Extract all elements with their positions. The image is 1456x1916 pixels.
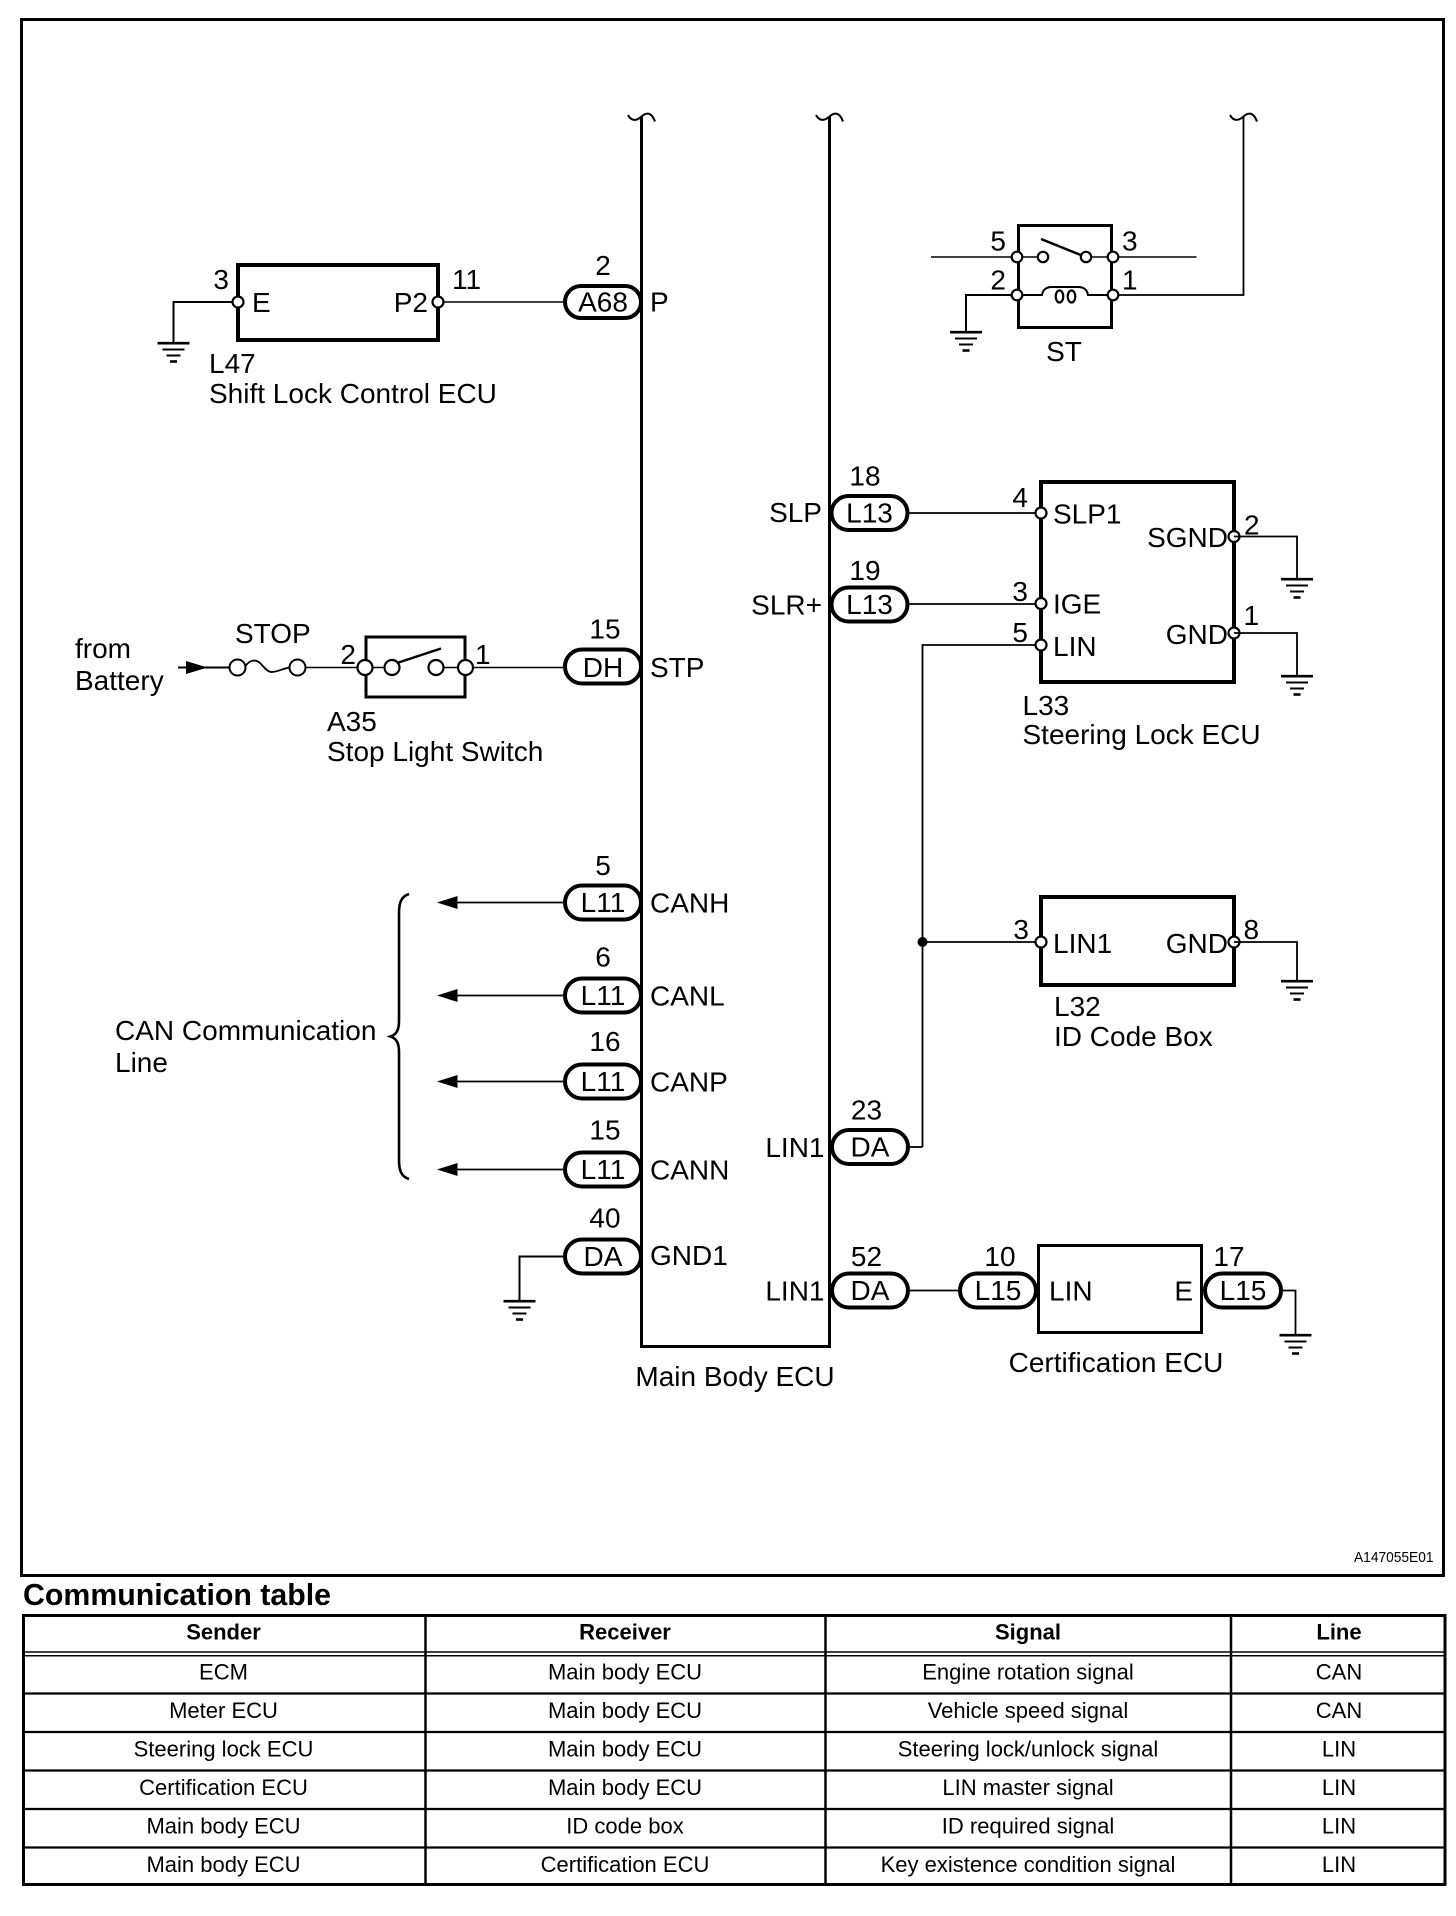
svg-text:LIN1: LIN1 bbox=[765, 1276, 824, 1307]
wire: LIN to LIN bus bbox=[923, 645, 1036, 1147]
wire: L15 17 to ground bbox=[1283, 1291, 1296, 1336]
connector L11 (CANN) bbox=[565, 1153, 641, 1187]
wire: L47 pin E to ground bbox=[174, 302, 234, 343]
wire: fuse to A35 pin 2 bbox=[306, 667, 365, 669]
svg-text:15: 15 bbox=[589, 1115, 620, 1146]
svg-text:Steering Lock ECU: Steering Lock ECU bbox=[1023, 719, 1261, 750]
wire: DA 52 to L15 bbox=[910, 1290, 960, 1292]
pin 3 circle (LIN1) bbox=[1036, 937, 1047, 948]
svg-text:Signal: Signal bbox=[995, 1620, 1061, 1645]
svg-text:Sender: Sender bbox=[186, 1620, 261, 1645]
svg-text:CANN: CANN bbox=[650, 1155, 729, 1186]
svg-text:11: 11 bbox=[452, 264, 481, 295]
svg-text:ECM: ECM bbox=[199, 1660, 248, 1685]
svg-text:ID required signal: ID required signal bbox=[942, 1814, 1114, 1839]
pin 1 circle (GND) bbox=[1229, 628, 1240, 639]
svg-text:from: from bbox=[75, 633, 131, 664]
pin 11 circle (P2) bbox=[433, 297, 444, 308]
svg-text:2: 2 bbox=[340, 639, 356, 670]
table outer border bbox=[24, 1616, 1446, 1885]
svg-text:1: 1 bbox=[1244, 600, 1260, 631]
svg-text:CAN: CAN bbox=[1316, 1698, 1362, 1723]
table header double rule bbox=[25, 1652, 1444, 1656]
pin 8 circle (GND) bbox=[1229, 937, 1240, 948]
svg-text:DH: DH bbox=[583, 652, 623, 683]
svg-text:15: 15 bbox=[589, 614, 620, 645]
A35 contact circles bbox=[385, 660, 400, 675]
svg-text:5: 5 bbox=[990, 226, 1006, 257]
ground (SGND) bbox=[1281, 579, 1313, 597]
svg-text:Battery: Battery bbox=[75, 665, 164, 696]
CAN brace bbox=[391, 894, 410, 1179]
svg-text:Receiver: Receiver bbox=[579, 1620, 671, 1645]
wire break at top of ST wire bbox=[1230, 114, 1257, 122]
connector DH bbox=[565, 650, 641, 684]
wire: DA to ground bbox=[520, 1257, 566, 1302]
svg-text:GND: GND bbox=[1166, 928, 1228, 959]
svg-text:LIN: LIN bbox=[1322, 1814, 1356, 1839]
relay ST box bbox=[1019, 226, 1112, 328]
svg-text:L11: L11 bbox=[581, 887, 626, 918]
wire break at top of left bus line bbox=[628, 114, 655, 122]
svg-text:LIN: LIN bbox=[1049, 1276, 1093, 1307]
svg-text:L11: L11 bbox=[581, 1066, 626, 1097]
connector A68 bbox=[565, 286, 641, 318]
svg-text:ID Code Box: ID Code Box bbox=[1054, 1021, 1213, 1052]
ground at L47 pin E bbox=[158, 343, 190, 361]
svg-text:18: 18 bbox=[849, 461, 880, 492]
svg-text:Line: Line bbox=[115, 1047, 168, 1078]
svg-text:E: E bbox=[252, 287, 271, 318]
Main Body ECU bottom line bbox=[640, 1345, 831, 1348]
connector DA (pin 23) bbox=[832, 1130, 908, 1164]
svg-text:ST: ST bbox=[1046, 336, 1082, 367]
ECU Certification box bbox=[1039, 1246, 1202, 1333]
wire: SLP to SLP1 bbox=[910, 512, 1036, 514]
svg-text:3: 3 bbox=[1012, 576, 1028, 607]
svg-text:2: 2 bbox=[990, 265, 1006, 296]
svg-text:IGE: IGE bbox=[1053, 589, 1101, 620]
svg-text:ID code box: ID code box bbox=[566, 1814, 683, 1839]
junction dot bbox=[918, 937, 928, 947]
svg-text:L13: L13 bbox=[846, 498, 893, 529]
pin 3 circle (E) bbox=[233, 297, 244, 308]
ST pin 3 circle bbox=[1108, 252, 1119, 263]
svg-text:Main body ECU: Main body ECU bbox=[146, 1814, 300, 1839]
ground at ST pin 2 bbox=[950, 332, 982, 350]
wire: junction to LIN1 bbox=[923, 941, 1036, 943]
svg-text:A147055E01: A147055E01 bbox=[1354, 1549, 1434, 1566]
svg-text:17: 17 bbox=[1213, 1241, 1244, 1272]
ground (GND1) bbox=[504, 1301, 536, 1319]
svg-text:Certification ECU: Certification ECU bbox=[541, 1852, 710, 1877]
svg-text:DA: DA bbox=[851, 1275, 890, 1306]
wire: ST pin 2 to ground bbox=[966, 295, 1017, 332]
svg-text:LIN1: LIN1 bbox=[1053, 928, 1112, 959]
svg-text:Main Body ECU: Main Body ECU bbox=[635, 1361, 834, 1392]
relay coil bbox=[1022, 287, 1108, 295]
svg-text:L13: L13 bbox=[846, 589, 893, 620]
svg-text:5: 5 bbox=[595, 850, 611, 881]
ground (Certification E) bbox=[1280, 1335, 1312, 1353]
svg-text:Stop Light Switch: Stop Light Switch bbox=[327, 736, 543, 767]
svg-text:3: 3 bbox=[1122, 226, 1138, 257]
wire: A35 pin 1 to connector DH bbox=[473, 667, 565, 669]
svg-text:2: 2 bbox=[595, 250, 611, 281]
A35 switch blade bbox=[397, 649, 441, 664]
svg-text:L32: L32 bbox=[1054, 991, 1101, 1022]
svg-text:CANP: CANP bbox=[650, 1067, 728, 1098]
svg-text:L15: L15 bbox=[1220, 1275, 1267, 1306]
svg-text:LIN: LIN bbox=[1322, 1852, 1356, 1877]
switch A35 box bbox=[366, 637, 465, 697]
svg-text:CAN Communication: CAN Communication bbox=[115, 1015, 376, 1046]
connector L15 (pin 17) bbox=[1205, 1274, 1281, 1308]
svg-text:Communication table: Communication table bbox=[23, 1577, 331, 1612]
Main Body ECU right bus line bbox=[828, 117, 831, 1345]
svg-text:5: 5 bbox=[1012, 617, 1028, 648]
table column dividers bbox=[426, 1614, 1232, 1886]
svg-text:SLP1: SLP1 bbox=[1053, 499, 1122, 530]
svg-text:GND: GND bbox=[1166, 619, 1228, 650]
svg-text:E: E bbox=[1174, 1276, 1193, 1307]
svg-text:SLR+: SLR+ bbox=[751, 590, 822, 621]
svg-text:L11: L11 bbox=[581, 980, 626, 1011]
svg-text:P: P bbox=[650, 287, 669, 318]
pin 2 circle (SGND) bbox=[1229, 531, 1240, 542]
svg-text:Certification ECU: Certification ECU bbox=[1009, 1347, 1224, 1378]
svg-text:Steering lock ECU: Steering lock ECU bbox=[134, 1737, 314, 1762]
svg-text:DA: DA bbox=[851, 1132, 890, 1163]
A35 pin 1 circle bbox=[458, 660, 473, 675]
svg-text:3: 3 bbox=[213, 264, 229, 295]
svg-text:Line: Line bbox=[1316, 1620, 1361, 1645]
wire: GND to ground bbox=[1234, 633, 1297, 676]
svg-text:3: 3 bbox=[1013, 914, 1029, 945]
svg-text:A35: A35 bbox=[327, 706, 377, 737]
wire: L32 GND to ground bbox=[1234, 942, 1297, 981]
wire: ST pin 5 to left bbox=[931, 256, 1017, 258]
svg-text:CANL: CANL bbox=[650, 981, 725, 1012]
svg-text:CAN: CAN bbox=[1316, 1660, 1362, 1685]
wire: SGND to ground bbox=[1234, 537, 1297, 580]
svg-text:LIN master signal: LIN master signal bbox=[942, 1775, 1113, 1800]
ground (L33 GND) bbox=[1281, 676, 1313, 694]
wire: ST pin 3 to right bbox=[1113, 256, 1197, 258]
ST pin 2 circle bbox=[1012, 290, 1023, 301]
coil loops bbox=[1056, 291, 1064, 303]
svg-text:8: 8 bbox=[1244, 914, 1260, 945]
ECU L47 box bbox=[238, 265, 438, 340]
svg-text:52: 52 bbox=[851, 1241, 882, 1272]
connector L15 (pin 10) bbox=[960, 1274, 1036, 1308]
svg-text:GND1: GND1 bbox=[650, 1240, 728, 1271]
svg-text:LIN: LIN bbox=[1322, 1737, 1356, 1762]
svg-text:LIN1: LIN1 bbox=[765, 1132, 824, 1163]
ST switch contact wires bbox=[1022, 256, 1108, 258]
svg-text:1: 1 bbox=[475, 639, 491, 670]
wire: DA 23 to LIN bus bbox=[910, 1146, 923, 1148]
svg-text:1: 1 bbox=[1122, 265, 1138, 296]
pin 5 circle (LIN) bbox=[1036, 640, 1047, 651]
svg-text:Vehicle speed signal: Vehicle speed signal bbox=[928, 1698, 1129, 1723]
wire: P2 to connector A68 bbox=[444, 301, 566, 303]
svg-text:Key existence condition signal: Key existence condition signal bbox=[881, 1852, 1176, 1877]
supply arrow bbox=[178, 667, 230, 669]
svg-text:Certification ECU: Certification ECU bbox=[139, 1775, 308, 1800]
svg-text:Shift Lock Control ECU: Shift Lock Control ECU bbox=[209, 378, 497, 409]
svg-text:A68: A68 bbox=[578, 287, 628, 318]
ST pin 1 circle bbox=[1108, 290, 1119, 301]
svg-text:19: 19 bbox=[849, 555, 880, 586]
svg-text:Steering lock/unlock signal: Steering lock/unlock signal bbox=[898, 1737, 1158, 1762]
svg-text:STP: STP bbox=[650, 652, 704, 683]
wire: CANH arrow bbox=[456, 902, 563, 904]
svg-text:Main body ECU: Main body ECU bbox=[146, 1852, 300, 1877]
svg-text:LIN: LIN bbox=[1322, 1775, 1356, 1800]
svg-text:L47: L47 bbox=[209, 348, 256, 379]
svg-text:Engine rotation signal: Engine rotation signal bbox=[922, 1660, 1134, 1685]
svg-text:SLP: SLP bbox=[769, 497, 822, 528]
A35 pin 2 circle bbox=[358, 660, 373, 675]
svg-text:STOP: STOP bbox=[235, 618, 311, 649]
Main Body ECU left bus line bbox=[640, 117, 643, 1345]
frame border bbox=[22, 20, 1444, 1576]
svg-text:P2: P2 bbox=[394, 287, 428, 318]
wire: CANP arrow bbox=[456, 1081, 563, 1083]
svg-text:23: 23 bbox=[851, 1095, 882, 1126]
svg-text:10: 10 bbox=[984, 1241, 1015, 1272]
svg-text:DA: DA bbox=[584, 1241, 623, 1272]
svg-text:CANH: CANH bbox=[650, 888, 729, 919]
pin 4 circle (SLP1) bbox=[1036, 508, 1047, 519]
table row rules bbox=[25, 1694, 1444, 1848]
ECU L32 box bbox=[1041, 897, 1234, 985]
wire: ST pin 1 to top break bbox=[1113, 117, 1244, 295]
svg-text:40: 40 bbox=[589, 1203, 620, 1234]
connector L13 (SLR+) bbox=[832, 588, 908, 622]
ST pin 5 circle bbox=[1012, 252, 1023, 263]
wire: CANN arrow bbox=[456, 1169, 563, 1171]
ST switch blade bbox=[1041, 239, 1082, 256]
ECU L33 box bbox=[1041, 482, 1234, 682]
connector DA (pin 52) bbox=[832, 1274, 908, 1308]
svg-text:16: 16 bbox=[589, 1026, 620, 1057]
svg-text:LIN: LIN bbox=[1053, 631, 1097, 662]
svg-text:Main body ECU: Main body ECU bbox=[548, 1698, 702, 1723]
wire: SLR+ to IGE bbox=[910, 603, 1036, 605]
svg-text:L33: L33 bbox=[1023, 690, 1070, 721]
connector L11 (CANH) bbox=[565, 886, 641, 920]
connector L11 (CANP) bbox=[565, 1065, 641, 1099]
ground (L32 GND) bbox=[1281, 981, 1313, 999]
fuse STOP bbox=[230, 660, 246, 676]
svg-text:L15: L15 bbox=[975, 1275, 1022, 1306]
connector L11 (CANL) bbox=[565, 979, 641, 1013]
svg-text:SGND: SGND bbox=[1147, 522, 1228, 553]
svg-text:Main body ECU: Main body ECU bbox=[548, 1737, 702, 1762]
A35 contact wires bbox=[373, 667, 459, 669]
pin 3 circle (IGE) bbox=[1036, 598, 1047, 609]
svg-text:Meter ECU: Meter ECU bbox=[169, 1698, 278, 1723]
wire: CANL arrow bbox=[456, 995, 563, 997]
svg-text:Main body ECU: Main body ECU bbox=[548, 1660, 702, 1685]
svg-text:4: 4 bbox=[1012, 482, 1028, 513]
connector DA (GND1) bbox=[565, 1240, 641, 1274]
ST switch contact circles bbox=[1038, 252, 1048, 262]
wire break at top of right bus line bbox=[816, 114, 843, 122]
svg-text:Main body ECU: Main body ECU bbox=[548, 1775, 702, 1800]
svg-text:L11: L11 bbox=[581, 1154, 626, 1185]
connector L13 (SLP) bbox=[832, 496, 908, 530]
svg-text:6: 6 bbox=[595, 942, 611, 973]
